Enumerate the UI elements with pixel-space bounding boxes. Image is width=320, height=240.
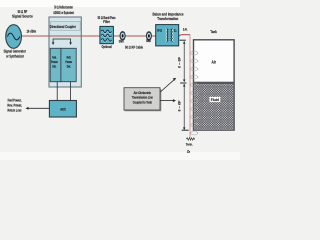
svg-text:or Synthesizer: or Synthesizer	[6, 54, 24, 59]
wire: ADC output arrow to the left	[28, 107, 50, 109]
label: Signal Generator or Synthesizer	[4, 49, 27, 59]
dimension line lower (fluid column)	[183, 84, 185, 129]
svg-text:Fwd.: Fwd.	[52, 56, 56, 60]
dimension bar at fluid surface	[180, 82, 186, 84]
svg-text:ADC: ADC	[60, 108, 66, 112]
svg-text:Zₜ: Zₜ	[187, 150, 190, 154]
wire: main red RF path from source through blocks to tank feed	[21, 35, 190, 37]
coupler tap wires with arrows into detectors	[53, 39, 71, 43]
svg-text:Optional: Optional	[102, 44, 112, 49]
svg-text:Directional Coupler: Directional Coupler	[50, 24, 76, 29]
svg-text:D.Ft.: D.Ft.	[183, 27, 188, 31]
svg-text:Det.: Det.	[52, 65, 56, 69]
fluid surface line	[194, 82, 235, 85]
transformer primary coil	[166, 29, 167, 42]
svg-text:50 Ω: 50 Ω	[157, 28, 162, 32]
svg-text:Term.: Term.	[186, 142, 193, 146]
dimension line upper (air column)	[183, 41, 185, 81]
signal source generator symbol	[6, 25, 22, 49]
svg-text:50 Ω RF Cable: 50 Ω RF Cable	[125, 46, 143, 50]
bottom light band	[0, 152, 240, 160]
svg-text:Coupled to Tank: Coupled to Tank	[133, 101, 152, 105]
svg-text:Signal Source: Signal Source	[12, 13, 33, 18]
label: 50 ohm Reflectometer AD8302 or Equivalent	[53, 5, 74, 15]
fluid hatch region	[194, 84, 233, 129]
svg-text:Air: Air	[212, 60, 217, 65]
svg-text:Air-Dielectric: Air-Dielectric	[134, 91, 152, 95]
svg-text:Det.: Det.	[67, 65, 71, 69]
svg-text:AD8302 or Equivalent: AD8302 or Equivalent	[53, 10, 74, 15]
svg-text:SMA: SMA	[146, 39, 151, 43]
wire: red path across reflectometer block	[49, 35, 81, 37]
svg-text:Return Loss: Return Loss	[8, 108, 22, 113]
svg-text:Refl.: Refl.	[67, 56, 71, 60]
label: Balun and Impedance Transformation	[153, 11, 185, 21]
forward power detector block	[50, 48, 61, 81]
callout arrow to dimension area	[160, 100, 173, 102]
reflected power detector block	[61, 48, 76, 81]
svg-text:ℓ – ℓF: ℓ – ℓF	[178, 57, 182, 68]
svg-text:16 dBm: 16 dBm	[26, 29, 36, 33]
dimension end bar at tank bottom	[182, 129, 189, 131]
label: 50 ohm Band-Pass Filter	[98, 15, 116, 24]
band-pass filter block	[100, 26, 114, 43]
transformer secondary coil	[172, 29, 173, 42]
svg-text:Power: Power	[65, 60, 72, 64]
label: Fwd Power, Rev. Power, Return Loss	[7, 97, 22, 112]
directional coupler box	[50, 21, 80, 30]
svg-text:Tank: Tank	[210, 30, 217, 34]
top white band	[0, 0, 240, 7]
svg-text:ℓ – ℓF: ℓ – ℓF	[178, 101, 182, 112]
termination resistor squiggle	[186, 138, 195, 140]
svg-text:Z₀: Z₀	[174, 28, 177, 32]
SMA connector 1	[120, 31, 126, 41]
dimension end bar at tank top	[180, 39, 186, 41]
svg-text:Transformation: Transformation	[157, 16, 178, 21]
callout box: Air-Dielectric Transmission Line Coupled to Tank	[124, 88, 161, 111]
air-dielectric transmission line loops	[191, 51, 198, 135]
svg-text:50 Ω Reflectometer: 50 Ω Reflectometer	[54, 5, 73, 10]
label: 50 ohm RF Signal Source	[12, 9, 33, 18]
svg-text:Filter: Filter	[103, 19, 110, 24]
wires: detector outputs down to ADC	[57, 82, 70, 101]
callout arrow to transmission line	[160, 80, 174, 92]
reflectometer outer block	[49, 17, 81, 87]
balun transformer block	[156, 25, 179, 46]
svg-text:Fluid: Fluid	[211, 98, 220, 102]
transformer core	[168, 29, 170, 42]
label: Term. Zt	[186, 142, 193, 153]
ADC block	[49, 101, 76, 118]
svg-text:Transmission Line: Transmission Line	[132, 96, 153, 100]
svg-text:Power: Power	[51, 60, 58, 64]
wire: red feed line down tank wall to termination	[189, 35, 191, 139]
svg-text:SMA: SMA	[119, 39, 124, 43]
SMA connector 2	[146, 31, 152, 41]
label: Fluid (on white patch)	[210, 97, 221, 102]
tank outline	[194, 40, 235, 130]
